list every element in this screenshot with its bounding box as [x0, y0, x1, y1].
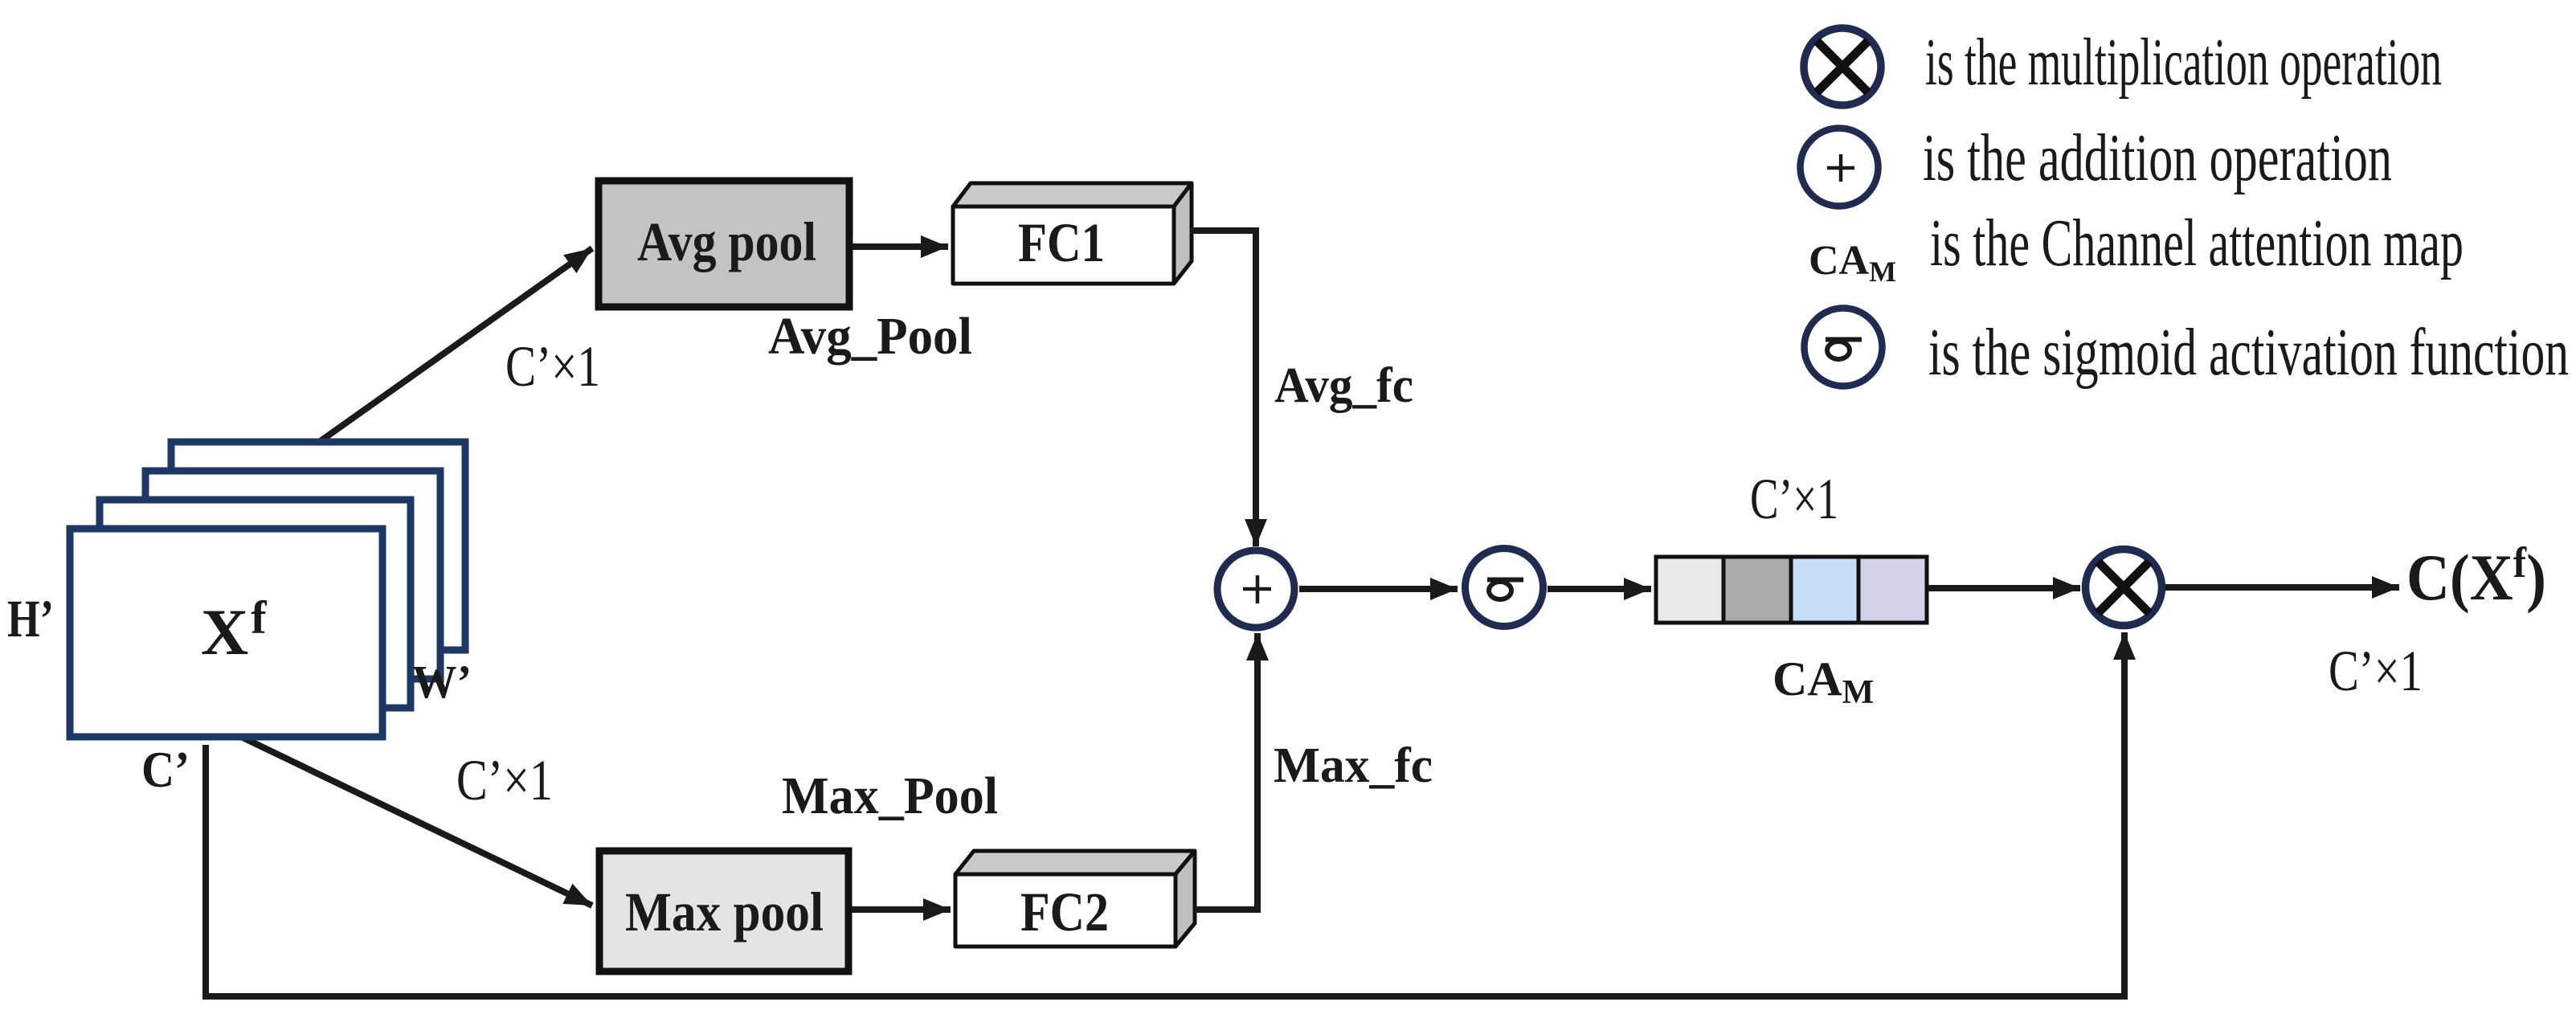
wire FC2 up to add node [1195, 633, 1257, 910]
svg-text:Avg_fc: Avg_fc [1274, 358, 1413, 413]
svg-text:is the Channel attention map: is the Channel attention map [1930, 206, 2464, 280]
legend sigmoid symbol [1805, 309, 1883, 386]
wire bar to multiply node [1928, 585, 2080, 591]
svg-text:is the multiplication operatio: is the multiplication operation [1925, 25, 2442, 100]
wire Avg pool to FC1 [853, 243, 948, 250]
legend add symbol [1801, 129, 1879, 206]
svg-text:C’×1: C’×1 [505, 334, 600, 399]
svg-text:Max_Pool: Max_Pool [782, 767, 998, 825]
svg-text:C’: C’ [141, 741, 190, 798]
wire add to sigmoid [1299, 586, 1458, 592]
svg-text:CAM: CAM [1773, 652, 1874, 711]
wire arrow from stack top to Avg pool [316, 248, 592, 444]
multiply node [2086, 550, 2162, 626]
feature map stack X^f [70, 442, 465, 737]
legend multiply symbol [1804, 28, 1881, 105]
wire from X stack down and along bottom to multiply node [206, 632, 2124, 996]
sigmoid node [1466, 549, 1544, 627]
wire multiply to output [2165, 584, 2399, 591]
Max pool box [599, 851, 848, 971]
svg-text:C’×1: C’×1 [456, 748, 553, 812]
wire arrow from stack bottom to Max pool [239, 736, 592, 906]
svg-text:FC2: FC2 [1020, 881, 1109, 943]
svg-text:Max_fc: Max_fc [1274, 738, 1433, 793]
svg-text:FC1: FC1 [1018, 212, 1105, 273]
wire Max pool to FC2 [852, 906, 951, 913]
svg-text:C(Xf): C(Xf) [2406, 538, 2546, 614]
FC1 3D box [953, 183, 1192, 284]
Avg pool box [599, 181, 849, 307]
svg-text:Avg_Pool: Avg_Pool [768, 307, 972, 366]
svg-text:H’: H’ [7, 590, 54, 648]
svg-text:C’×1: C’×1 [1750, 467, 1838, 531]
add node + [1217, 550, 1294, 628]
svg-text:CAM: CAM [1809, 238, 1896, 288]
wire sigmoid to CAM bar [1548, 586, 1651, 592]
wire FC1 down to add node [1191, 231, 1256, 546]
svg-text:is the sigmoid activation func: is the sigmoid activation function [1928, 315, 2569, 390]
svg-text:W’: W’ [412, 656, 472, 708]
CAM bar cells [1656, 557, 1927, 623]
svg-text:Max pool: Max pool [625, 881, 824, 943]
svg-text:is the addition operation: is the addition operation [1923, 121, 2392, 195]
svg-text:Avg pool: Avg pool [637, 211, 816, 272]
FC2 3D box [955, 851, 1195, 947]
svg-text:C’×1: C’×1 [2329, 639, 2423, 703]
